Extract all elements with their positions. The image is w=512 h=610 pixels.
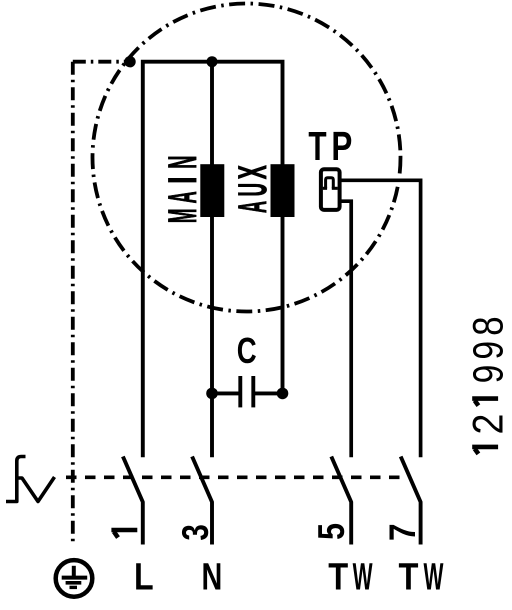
- svg-text:9: 9: [465, 365, 512, 384]
- svg-text:T: T: [398, 555, 418, 598]
- switch contact 5: blade and lower wire: [331, 457, 351, 545]
- wire: MAIN branch vertical: [210, 62, 214, 458]
- wire: TP to switch 7 branch: [342, 180, 421, 457]
- label MAIN (rotated): [160, 156, 205, 224]
- winding AUX (black rect): [271, 164, 295, 217]
- svg-text:U: U: [230, 183, 275, 196]
- svg-text:X: X: [230, 165, 275, 179]
- node: capacitor right junction dot: [277, 388, 289, 400]
- protective earth chain line (horizontal): [73, 60, 127, 64]
- node: bus / MAIN junction dot: [207, 56, 218, 67]
- svg-text:T: T: [308, 124, 326, 170]
- svg-text:A: A: [161, 191, 205, 203]
- node: capacitor left junction dot: [206, 388, 218, 400]
- protective earth chain line (vertical): [71, 62, 75, 544]
- terminal label TW (second): [398, 555, 443, 598]
- svg-text:N: N: [201, 556, 222, 599]
- label TP: [308, 123, 352, 169]
- label AUX (rotated): [230, 165, 275, 213]
- switch contact 3: blade and lower wire: [192, 457, 212, 545]
- svg-text:8: 8: [465, 316, 512, 336]
- svg-text:9: 9: [465, 341, 512, 360]
- svg-text:7: 7: [383, 523, 424, 540]
- svg-text:W: W: [353, 555, 373, 598]
- actuation dashed line: [66, 475, 403, 479]
- wire: top bus from L branch to AUX branch: [143, 62, 283, 458]
- svg-text:L: L: [134, 555, 154, 598]
- label 1 (rotated, custom glyph): [111, 530, 137, 538]
- svg-text:W: W: [423, 555, 443, 598]
- winding MAIN (black rect): [200, 164, 224, 217]
- protective earth (ground) symbol: [56, 560, 93, 597]
- label 121998 (rotated part number): [464, 316, 512, 434]
- trip/step symbol: [6, 457, 26, 502]
- node: housing earth junction dot: [124, 56, 135, 67]
- svg-text:P: P: [331, 123, 352, 169]
- svg-text:2: 2: [464, 414, 512, 435]
- svg-text:T: T: [328, 555, 348, 598]
- svg-text:5: 5: [311, 523, 353, 540]
- digit 1 of 121998 (middle, custom glyph): [472, 399, 498, 406]
- capacitor C plates: [238, 376, 242, 407]
- motor housing circle (dash-dot): [93, 4, 401, 312]
- digit 1 of 121998 (bottom, custom glyph): [472, 447, 498, 454]
- switch contact 7: blade and lower wire: [401, 457, 421, 545]
- svg-text:M: M: [161, 209, 205, 224]
- svg-text:N: N: [160, 156, 205, 169]
- switch contact 1: blade and lower wire: [123, 457, 143, 545]
- thermal protector TP box: [321, 169, 340, 210]
- TP contact symbol inside box: [323, 178, 338, 189]
- svg-text:3: 3: [176, 524, 217, 540]
- svg-text:I: I: [162, 177, 206, 184]
- svg-text:A: A: [231, 201, 275, 213]
- svg-text:C: C: [237, 330, 257, 370]
- terminal label TW (first): [328, 555, 373, 598]
- capacitor C leads: [212, 391, 240, 395]
- wire: TP to switch 5 branch: [342, 201, 352, 457]
